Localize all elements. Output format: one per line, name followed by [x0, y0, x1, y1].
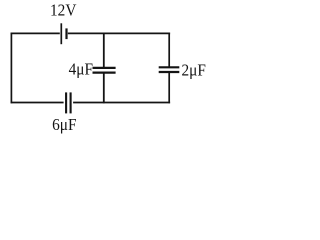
wire right side upper: [168, 33, 170, 67]
wire bottom-left segment: [11, 102, 64, 104]
capacitor C2 2uF top plate: [159, 66, 180, 68]
wire left side: [10, 33, 12, 104]
capacitor C3 6uF left plate: [65, 92, 67, 113]
svg-text:6μF: 6μF: [52, 116, 76, 134]
battery V1 long plate: [60, 23, 62, 44]
svg-text:4μF: 4μF: [69, 61, 93, 79]
capacitor C2 2uF bottom plate: [159, 71, 180, 73]
wire top-left segment: [11, 32, 60, 34]
wire middle branch lower: [103, 73, 105, 103]
svg-text:12V: 12V: [50, 2, 77, 20]
wire bottom-right segment: [73, 102, 170, 104]
capacitor C3 6uF right plate: [70, 92, 72, 113]
wire right side lower: [168, 73, 170, 103]
wire top-right segment: [68, 32, 170, 34]
capacitor C1 4uF bottom plate: [93, 71, 116, 73]
wire middle branch upper: [103, 33, 105, 67]
battery V1 short plate: [65, 28, 67, 39]
capacitor C1 4uF top plate: [93, 67, 116, 69]
svg-text:2μF: 2μF: [182, 62, 206, 80]
